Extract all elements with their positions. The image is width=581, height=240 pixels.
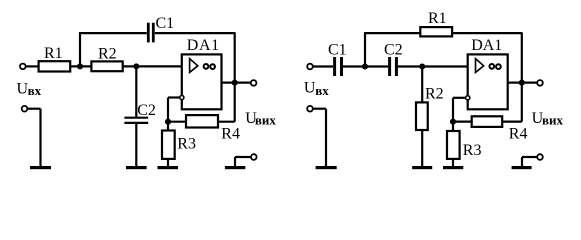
svg-text:R1: R1 (44, 45, 63, 62)
svg-text:C1: C1 (328, 41, 347, 58)
svg-text:R4: R4 (221, 125, 240, 142)
svg-text:вх: вх (28, 83, 42, 98)
svg-text:R1: R1 (428, 10, 447, 27)
svg-text:R4: R4 (509, 125, 528, 142)
svg-text:C2: C2 (137, 102, 156, 119)
svg-text:вих: вих (542, 113, 564, 128)
svg-text:R3: R3 (177, 135, 196, 152)
svg-text:C1: C1 (156, 15, 175, 32)
svg-text:вх: вх (315, 83, 329, 98)
svg-text:R2: R2 (98, 46, 117, 63)
svg-text:R2: R2 (425, 85, 444, 102)
svg-text:DA1: DA1 (187, 37, 220, 54)
svg-text:DA1: DA1 (471, 37, 502, 54)
svg-text:R3: R3 (463, 142, 482, 159)
svg-text:C2: C2 (384, 41, 403, 58)
svg-text:вих: вих (255, 113, 277, 128)
svg-text:U: U (304, 80, 316, 97)
